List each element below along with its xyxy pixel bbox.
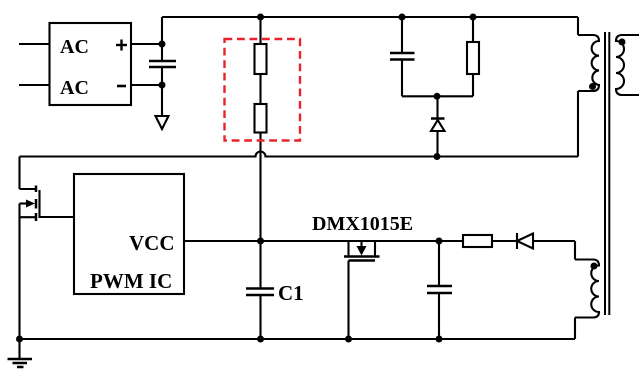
ground triangle (AC common) — [156, 116, 169, 129]
wire VCC rail corner down — [574, 241, 576, 260]
node T1 secondary phase dot — [619, 39, 626, 46]
node ground rail left — [16, 336, 23, 343]
wire - node down to ground — [161, 85, 163, 116]
node + — [159, 41, 166, 48]
wire startup rail with hop — [20, 152, 579, 157]
wire snubber resistor branch — [472, 17, 474, 96]
wire snubber cap branch — [401, 17, 403, 96]
wire Q2 source to ground rail — [347, 261, 349, 340]
capacitor snubber — [390, 53, 415, 60]
capacitor C1 — [246, 241, 304, 339]
resistor divider lower — [255, 104, 267, 133]
node ground rail Q2 — [345, 336, 352, 343]
AC rectifier block — [50, 23, 132, 105]
svg-text:VCC: VCC — [129, 231, 175, 255]
svg-text:PWM IC: PWM IC — [90, 269, 172, 293]
node output rail — [436, 238, 443, 245]
wire filter cap to - node — [161, 67, 163, 85]
transistor Q1 startup MOSFET — [20, 186, 75, 222]
node VCC / divider — [257, 238, 264, 245]
svg-text:C1: C1 — [278, 281, 304, 305]
resistor snubber — [467, 42, 479, 74]
svg-text:AC: AC — [60, 36, 89, 58]
wire - output — [131, 84, 162, 86]
node diode to startup rail — [434, 153, 441, 160]
svg-text:AC: AC — [60, 77, 89, 99]
wire AC input line 2 — [19, 84, 50, 86]
capacitor input filter — [149, 61, 176, 67]
wire left rail lower (gate to ground) — [18, 204, 20, 340]
wire left rail upper (drain) — [18, 157, 20, 190]
wire + output — [131, 43, 162, 45]
node - — [159, 82, 166, 89]
resistor output — [463, 235, 492, 247]
node T2 phase dot — [591, 263, 598, 270]
capacitor output — [427, 241, 452, 339]
wire snubber join — [402, 95, 473, 97]
wire top rail — [162, 16, 578, 18]
transistor Q2 DMX1015E — [312, 213, 413, 261]
node snubber top rail cap — [399, 14, 406, 21]
wire VCC rail — [184, 240, 575, 242]
node ground rail C1 — [257, 336, 264, 343]
wire AC input line 1 — [19, 43, 50, 45]
resistor divider upper — [255, 44, 267, 74]
node snubber join — [434, 93, 441, 100]
transformer T1 primary winding — [578, 17, 599, 157]
wire divider vertical — [259, 17, 261, 241]
wire + node down to filter cap — [161, 44, 163, 61]
node T1 primary phase dot — [589, 83, 596, 90]
svg-text:DMX1015E: DMX1015E — [312, 213, 413, 235]
transformer T2 output winding — [575, 260, 599, 340]
node snubber top rail res — [470, 14, 477, 21]
wire bottom ground rail — [20, 338, 576, 340]
node ground rail output cap — [436, 336, 443, 343]
PWM IC block — [74, 174, 184, 294]
node top rail / divider — [257, 14, 264, 21]
transformer T1 core — [605, 32, 609, 315]
red dashed highlight box — [225, 39, 301, 141]
transformer T1 secondary winding — [616, 35, 639, 95]
ground earth symbol — [8, 339, 33, 367]
diode snubber clamp — [431, 96, 445, 156]
wire + node up to top rail — [161, 17, 163, 44]
diode output — [517, 233, 533, 249]
